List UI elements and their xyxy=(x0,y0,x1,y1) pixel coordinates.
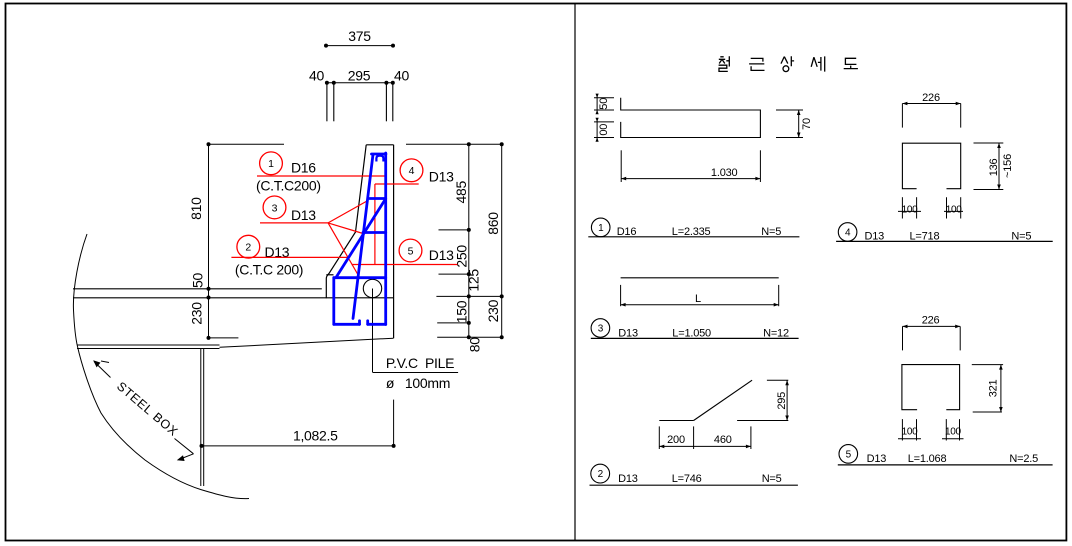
svg-text:(C.T.C 200): (C.T.C 200) xyxy=(235,261,303,277)
svg-text:(C.T.C200): (C.T.C200) xyxy=(256,178,321,194)
break line curve xyxy=(73,234,249,499)
detail 5: U bar shape xyxy=(902,365,960,410)
svg-text:L=2.335: L=2.335 xyxy=(672,226,711,238)
leader 1 xyxy=(257,175,386,177)
detail 5: dim 321 xyxy=(972,365,1003,412)
svg-text:50: 50 xyxy=(189,273,205,288)
steel box web xyxy=(200,349,202,487)
svg-text:230: 230 xyxy=(188,302,204,325)
svg-text:5: 5 xyxy=(846,450,852,461)
svg-text:3: 3 xyxy=(598,324,604,335)
svg-text:D16: D16 xyxy=(291,160,316,176)
deck soffit slant xyxy=(220,338,394,347)
detail 1: dim 70 xyxy=(776,110,803,138)
detail 3: dim L xyxy=(621,285,779,306)
svg-text:1.030: 1.030 xyxy=(711,167,738,179)
steel box top flange xyxy=(73,234,393,499)
svg-text:860: 860 xyxy=(485,212,501,235)
rebar: wall outer slant bar xyxy=(334,153,386,325)
dimension 40 295 40 xyxy=(327,82,393,84)
svg-text:L=1.068: L=1.068 xyxy=(908,453,947,465)
rebar: top hook xyxy=(376,156,383,162)
rebar: top cap xyxy=(372,153,386,156)
svg-text:100: 100 xyxy=(946,204,963,215)
rebar: bent bar diagonal xyxy=(336,199,386,278)
rebar: footing left bar xyxy=(332,278,335,325)
rebar: footing bottom bars xyxy=(334,323,360,326)
hangul 세 xyxy=(811,56,825,71)
svg-text:150: 150 xyxy=(454,300,470,323)
detail 4: U bar shape xyxy=(902,143,960,189)
svg-text:375: 375 xyxy=(348,28,371,44)
detail 5: dims 100 xyxy=(898,419,964,440)
panel divider line xyxy=(574,4,576,541)
detail 4: item row xyxy=(838,223,857,242)
svg-text:2: 2 xyxy=(245,242,251,254)
svg-text:460: 460 xyxy=(714,434,732,446)
rebar: middle horizontal bar xyxy=(369,197,385,200)
svg-text:~156: ~156 xyxy=(1002,154,1014,178)
P.V.C pile circle xyxy=(363,279,381,297)
svg-text:100: 100 xyxy=(945,427,962,438)
concrete parapet outline xyxy=(326,145,393,338)
leader 5 xyxy=(352,264,458,266)
svg-text:5: 5 xyxy=(408,245,414,257)
detail 4: dim 136~156 xyxy=(974,143,1004,190)
rebar callout circle 2 xyxy=(237,235,260,258)
svg-text:80: 80 xyxy=(467,337,483,352)
pile leader line xyxy=(372,289,374,373)
rebar callout circle 4 xyxy=(400,159,423,182)
hangul 상 xyxy=(781,56,794,66)
hangul 도 xyxy=(844,58,858,68)
detail 1: dim 50 xyxy=(594,95,614,114)
svg-text:N=5: N=5 xyxy=(762,473,782,485)
dimension 375 (top) xyxy=(326,45,393,47)
svg-text:40: 40 xyxy=(394,67,409,83)
detail 4: dim 226 xyxy=(902,104,960,128)
leader 2 xyxy=(231,256,347,258)
svg-text:4: 4 xyxy=(409,165,415,177)
parapet stem wall lines (broken view) xyxy=(327,83,393,122)
svg-text:L=1.050: L=1.050 xyxy=(672,327,711,339)
detail 5: item row xyxy=(839,445,858,464)
detail 3: straight bar xyxy=(621,277,779,279)
detail 2: dims 200 460 xyxy=(659,426,751,449)
left dimension chain 810/50/230 xyxy=(209,144,285,338)
svg-text:P.V.C PILE: P.V.C PILE xyxy=(386,355,454,371)
leader 4 xyxy=(375,184,419,265)
rebar callout circle 3 xyxy=(263,196,286,219)
svg-text:D13: D13 xyxy=(291,207,316,223)
svg-text:1: 1 xyxy=(598,223,604,234)
detail 4: dims 100 xyxy=(898,197,963,218)
svg-text:295: 295 xyxy=(348,67,371,83)
svg-text:00: 00 xyxy=(598,124,610,136)
detail 3: item row xyxy=(591,319,610,338)
svg-text:D13: D13 xyxy=(618,473,638,485)
svg-text:D13: D13 xyxy=(865,230,885,242)
svg-text:D13: D13 xyxy=(429,169,454,185)
svg-text:136: 136 xyxy=(988,158,1000,176)
svg-text:810: 810 xyxy=(188,197,204,220)
svg-text:230: 230 xyxy=(485,299,501,322)
rebar: lower horizontal bar xyxy=(363,231,386,234)
svg-text:100: 100 xyxy=(902,204,919,215)
svg-text:1,082.5: 1,082.5 xyxy=(293,428,338,444)
svg-text:40: 40 xyxy=(309,67,324,83)
detail 2: bent bar shape xyxy=(659,380,788,420)
svg-text:50: 50 xyxy=(598,98,610,110)
svg-text:3: 3 xyxy=(272,202,278,214)
deck slab lines xyxy=(73,289,393,298)
hangul 철 xyxy=(719,56,730,71)
svg-text:L=718: L=718 xyxy=(910,230,940,242)
detail 1: dim 100 xyxy=(594,119,614,142)
steel box upper arrow xyxy=(94,361,111,378)
svg-text:226: 226 xyxy=(922,92,940,104)
svg-text:D16: D16 xyxy=(617,226,637,238)
detail 1: dim 1.030 xyxy=(621,150,760,182)
svg-text:70: 70 xyxy=(801,118,813,130)
svg-text:D13: D13 xyxy=(429,247,454,263)
svg-text:100: 100 xyxy=(902,427,919,438)
detail 2: item row xyxy=(591,464,610,483)
svg-text:226: 226 xyxy=(922,315,940,327)
svg-text:N=5: N=5 xyxy=(1011,230,1031,242)
title 철근상세도 (drawn strokes) xyxy=(719,56,858,71)
hangul 근 xyxy=(749,58,764,70)
right dimension chains 485/250/125/150/80 and 860/230 xyxy=(406,144,502,337)
svg-text:N=5: N=5 xyxy=(761,226,781,238)
rebar callout circle 5 xyxy=(399,239,422,262)
detail 1: bar shape xyxy=(621,98,761,138)
detail 2: dim 295 xyxy=(767,380,788,420)
svg-text:ø 100mm: ø 100mm xyxy=(386,375,450,391)
dimension 1,082.5 xyxy=(393,400,395,446)
svg-text:295: 295 xyxy=(776,392,788,410)
svg-text:N=2.5: N=2.5 xyxy=(1009,453,1038,465)
leader 3 with fan xyxy=(260,201,367,277)
svg-text:321: 321 xyxy=(988,379,1000,397)
svg-text:2: 2 xyxy=(598,469,604,480)
svg-text:D13: D13 xyxy=(618,327,638,339)
svg-text:L: L xyxy=(695,293,701,305)
svg-text:D13: D13 xyxy=(867,453,887,465)
svg-text:200: 200 xyxy=(667,434,685,446)
svg-text:4: 4 xyxy=(845,228,851,239)
rebar callout circle 1 xyxy=(260,152,283,175)
rebar: footing top bar xyxy=(334,276,386,279)
steel box lower arrow xyxy=(175,439,194,460)
svg-text:1: 1 xyxy=(268,158,274,170)
detail 1: item row xyxy=(591,218,610,237)
svg-text:125: 125 xyxy=(465,269,481,292)
svg-text:485: 485 xyxy=(453,181,469,204)
svg-text:N=12: N=12 xyxy=(763,327,789,339)
detail 5: dim 226 xyxy=(903,326,961,350)
svg-text:L=746: L=746 xyxy=(672,473,702,485)
rebar: wall right vertical bar xyxy=(384,153,387,325)
